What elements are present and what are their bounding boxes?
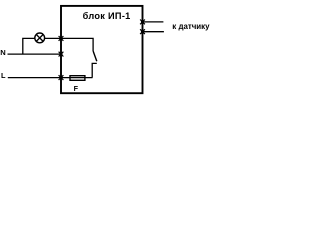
wire: N line [8,53,62,55]
wire: sensor line 1 [143,21,164,23]
terminal: lamp wire at box edge [59,36,64,41]
svg-text:N: N [0,48,5,57]
terminal: L wire at box edge [59,75,64,80]
terminal: N wire at box edge [59,52,64,57]
block IP-1 enclosure box [61,6,143,93]
wire: lamp branch from N up and right to box [23,38,61,54]
svg-text:блок ИП-1: блок ИП-1 [83,11,131,21]
wire: sensor line 2 [143,31,164,33]
svg-text:к датчику: к датчику [172,22,210,31]
wire: L line through fuse to switch [8,77,93,79]
lamp HL (circle with cross) [35,33,45,43]
switch fixed contact hook [92,63,97,77]
terminal: sensor line 2 at box edge [140,29,145,34]
fuse F body [70,76,85,81]
svg-text:F: F [74,84,79,93]
wire: inside box, top run down to switch [61,38,93,51]
switch blade [93,51,97,61]
terminal: sensor line 1 at box edge [140,20,145,25]
svg-text:L: L [1,71,6,80]
